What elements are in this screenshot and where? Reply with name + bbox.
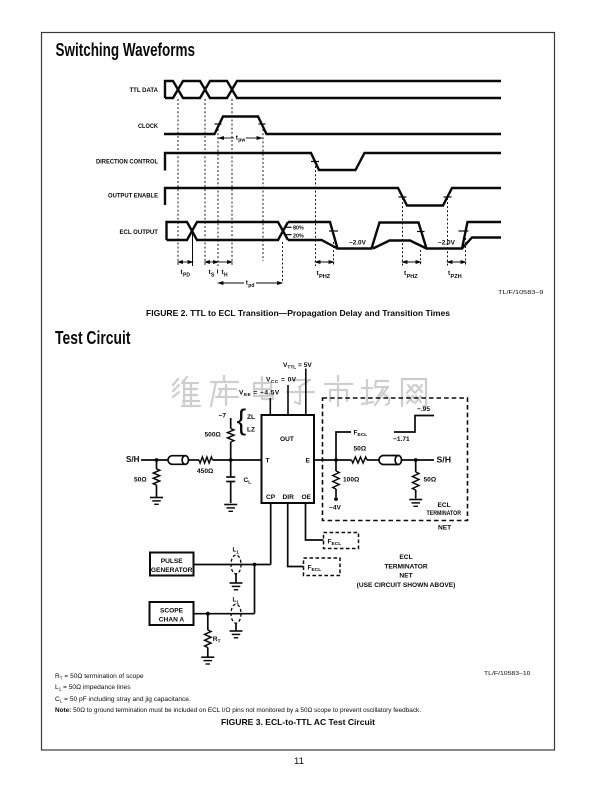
svg-text:pw: pw [238,138,245,144]
svg-text:TERMINATOR: TERMINATOR [384,564,428,571]
svg-text:100Ω: 100Ω [343,477,360,484]
svg-text:50Ω: 50Ω [354,446,367,453]
svg-text:ECL: ECL [399,554,412,561]
svg-text:11: 11 [294,756,304,767]
svg-text:PULSE: PULSE [161,558,184,565]
svg-text:FIGURE 2. TTL to ECL Transitio: FIGURE 2. TTL to ECL Transition—Propagat… [146,309,450,318]
svg-text:ECL OUTPUT: ECL OUTPUT [120,229,159,236]
svg-text:H: H [224,273,228,279]
svg-text:−.95: −.95 [417,406,430,413]
svg-text:FIGURE 3. ECL-to-TTL AC Test C: FIGURE 3. ECL-to-TTL AC Test Circuit [221,718,375,727]
svg-text:−2.0V: −2.0V [349,240,367,247]
svg-text:PHZ: PHZ [407,274,419,280]
svg-text:80%: 80% [293,226,304,232]
svg-text:−4V: −4V [329,505,342,512]
svg-text:NET: NET [399,573,412,580]
svg-text:{: { [237,405,247,437]
svg-text:DIR: DIR [283,494,295,501]
svg-text:L1 = 50Ω impedance lines: L1 = 50Ω impedance lines [55,684,131,692]
svg-text:−1.71: −1.71 [393,436,410,443]
svg-text:SCOPE: SCOPE [160,608,184,615]
svg-text:TL/F/10583–9: TL/F/10583–9 [498,290,544,296]
svg-text:T: T [266,458,270,465]
svg-text:50Ω: 50Ω [134,477,147,484]
svg-text:(USE CIRCUIT SHOWN ABOVE): (USE CIRCUIT SHOWN ABOVE) [357,582,456,589]
svg-text:NET: NET [438,525,451,532]
svg-text:GENERATOR: GENERATOR [151,567,193,574]
svg-text:50Ω: 50Ω [424,477,437,484]
svg-text:OUT: OUT [280,436,294,443]
svg-text:500Ω: 500Ω [205,432,222,439]
svg-text:pd: pd [248,283,254,289]
svg-text:PD: PD [183,273,190,279]
svg-text:20%: 20% [293,233,304,239]
svg-text:TERMINATOR: TERMINATOR [427,510,462,517]
svg-text:450Ω: 450Ω [197,468,214,475]
svg-text:Test Circuit: Test Circuit [55,328,131,348]
svg-text:E: E [306,458,311,465]
svg-text:PHZ: PHZ [319,274,331,280]
svg-text:CLOCK: CLOCK [138,123,158,130]
svg-text:−2.0V: −2.0V [438,240,456,247]
svg-text:TTL DATA: TTL DATA [130,87,159,94]
svg-text:CL = 50 pF including stray and: CL = 50 pF including stray and jig capac… [55,696,191,704]
svg-text:Note: 50Ω to ground terminatio: Note: 50Ω to ground termination must be … [55,707,421,714]
svg-text:S/H: S/H [126,455,140,464]
svg-text:RT = 50Ω termination of scope: RT = 50Ω termination of scope [55,673,144,681]
svg-text:OE: OE [302,494,312,501]
svg-text:PZH: PZH [451,274,462,280]
svg-text:ECL: ECL [438,502,451,509]
svg-text:LZ: LZ [247,427,255,434]
svg-text:OUTPUT ENABLE: OUTPUT ENABLE [108,192,158,199]
svg-text:S/H: S/H [437,456,452,465]
svg-text:TL/F/10583–10: TL/F/10583–10 [484,671,531,677]
svg-text:ZL: ZL [247,414,255,421]
svg-text:CP: CP [266,494,276,501]
svg-text:Switching Waveforms: Switching Waveforms [56,40,196,60]
svg-text:CHAN A: CHAN A [159,617,185,624]
svg-text:DIRECTION CONTROL: DIRECTION CONTROL [96,159,158,166]
svg-text:−7: −7 [219,413,227,420]
